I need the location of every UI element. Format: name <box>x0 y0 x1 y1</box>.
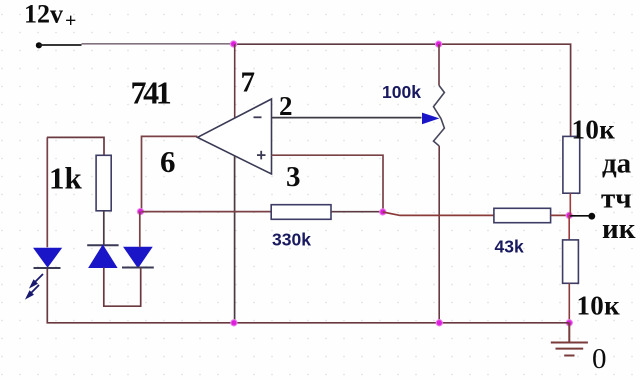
svg-text:12v: 12v <box>24 0 63 29</box>
svg-text:1k: 1k <box>49 161 83 196</box>
svg-text:43k: 43k <box>495 237 524 257</box>
junction top rail / pin7 <box>231 41 237 47</box>
wire 10k upper to sensor node <box>569 193 571 215</box>
label 12v+ supply <box>24 0 76 32</box>
svg-text:100k: 100k <box>382 82 421 102</box>
terminal 12v input <box>36 42 42 48</box>
LED D1 <box>27 248 61 297</box>
svg-text:330k: 330k <box>272 230 311 250</box>
svg-text:6: 6 <box>160 144 176 179</box>
resistor 10k upper <box>563 136 580 193</box>
junction ground node <box>566 320 572 326</box>
wire D2-D3 bottom U <box>104 268 141 307</box>
wire sensor node to 10k lower <box>568 215 570 240</box>
wire LED top lead <box>46 137 48 247</box>
wire 10k lower to ground node <box>568 283 570 323</box>
wire pin 3 to summing node <box>272 155 384 212</box>
wire pin 4 down to bottom rail <box>234 156 236 323</box>
wire summing node to 43k <box>383 212 494 215</box>
wire top rail right with corner down to 10k <box>439 44 571 136</box>
junction bottom rail / pot <box>436 320 442 326</box>
wire pot top lead <box>438 44 440 85</box>
svg-text:10к: 10к <box>572 115 616 145</box>
svg-text:2: 2 <box>279 91 293 121</box>
resistor 43k <box>494 208 551 222</box>
op-amp U1 741 <box>197 99 271 174</box>
wire pin 6 output down to node <box>142 136 198 211</box>
svg-text:тч: тч <box>601 183 632 215</box>
potentiometer 100k zigzag <box>434 85 445 145</box>
svg-text:да: да <box>602 148 632 180</box>
wire D3 top to output node <box>139 212 141 248</box>
wire top rail left (gray segment) <box>82 43 234 45</box>
junction summing node <box>380 209 386 215</box>
wire 43k to sensor node <box>551 214 570 216</box>
resistor 1k <box>96 155 111 211</box>
svg-text:741: 741 <box>131 74 171 110</box>
wire 12v terminal to top rail (black segment) <box>39 44 82 46</box>
label датчик <box>601 148 636 246</box>
terminal sensor output <box>588 213 595 220</box>
junction bottom rail / pin4 <box>231 320 237 326</box>
wire output node to 330k <box>142 211 272 213</box>
wire bracket 1k top / LED top <box>47 137 104 155</box>
wire pin 7 <box>234 44 236 118</box>
wire top rail middle <box>234 43 439 45</box>
svg-text:+: + <box>65 10 76 32</box>
wire bottom rail <box>47 268 569 323</box>
junction top rail / pot top <box>436 41 442 47</box>
junction output node <box>137 209 143 215</box>
wire 1k bottom to diode D2 <box>103 211 105 246</box>
potentiometer wiper arrow <box>423 113 438 123</box>
wire pot bottom lead to bottom rail <box>438 146 440 323</box>
svg-text:7: 7 <box>241 67 256 99</box>
wire sensor stub <box>569 215 589 217</box>
resistor 330k <box>271 205 331 220</box>
diode D3 (right, pointing down) <box>122 247 154 267</box>
svg-text:0: 0 <box>592 343 607 375</box>
junction sensor node <box>566 212 572 218</box>
wire pin 2 to pot wiper <box>272 117 422 119</box>
diode D2 (middle, pointing up) <box>87 245 118 267</box>
wire 330k to summing node <box>331 211 383 213</box>
resistor 10k lower <box>563 240 579 283</box>
svg-text:ик: ик <box>602 213 636 245</box>
svg-text:3: 3 <box>286 161 301 193</box>
svg-text:10к: 10к <box>577 291 621 321</box>
ground symbol <box>551 323 588 356</box>
